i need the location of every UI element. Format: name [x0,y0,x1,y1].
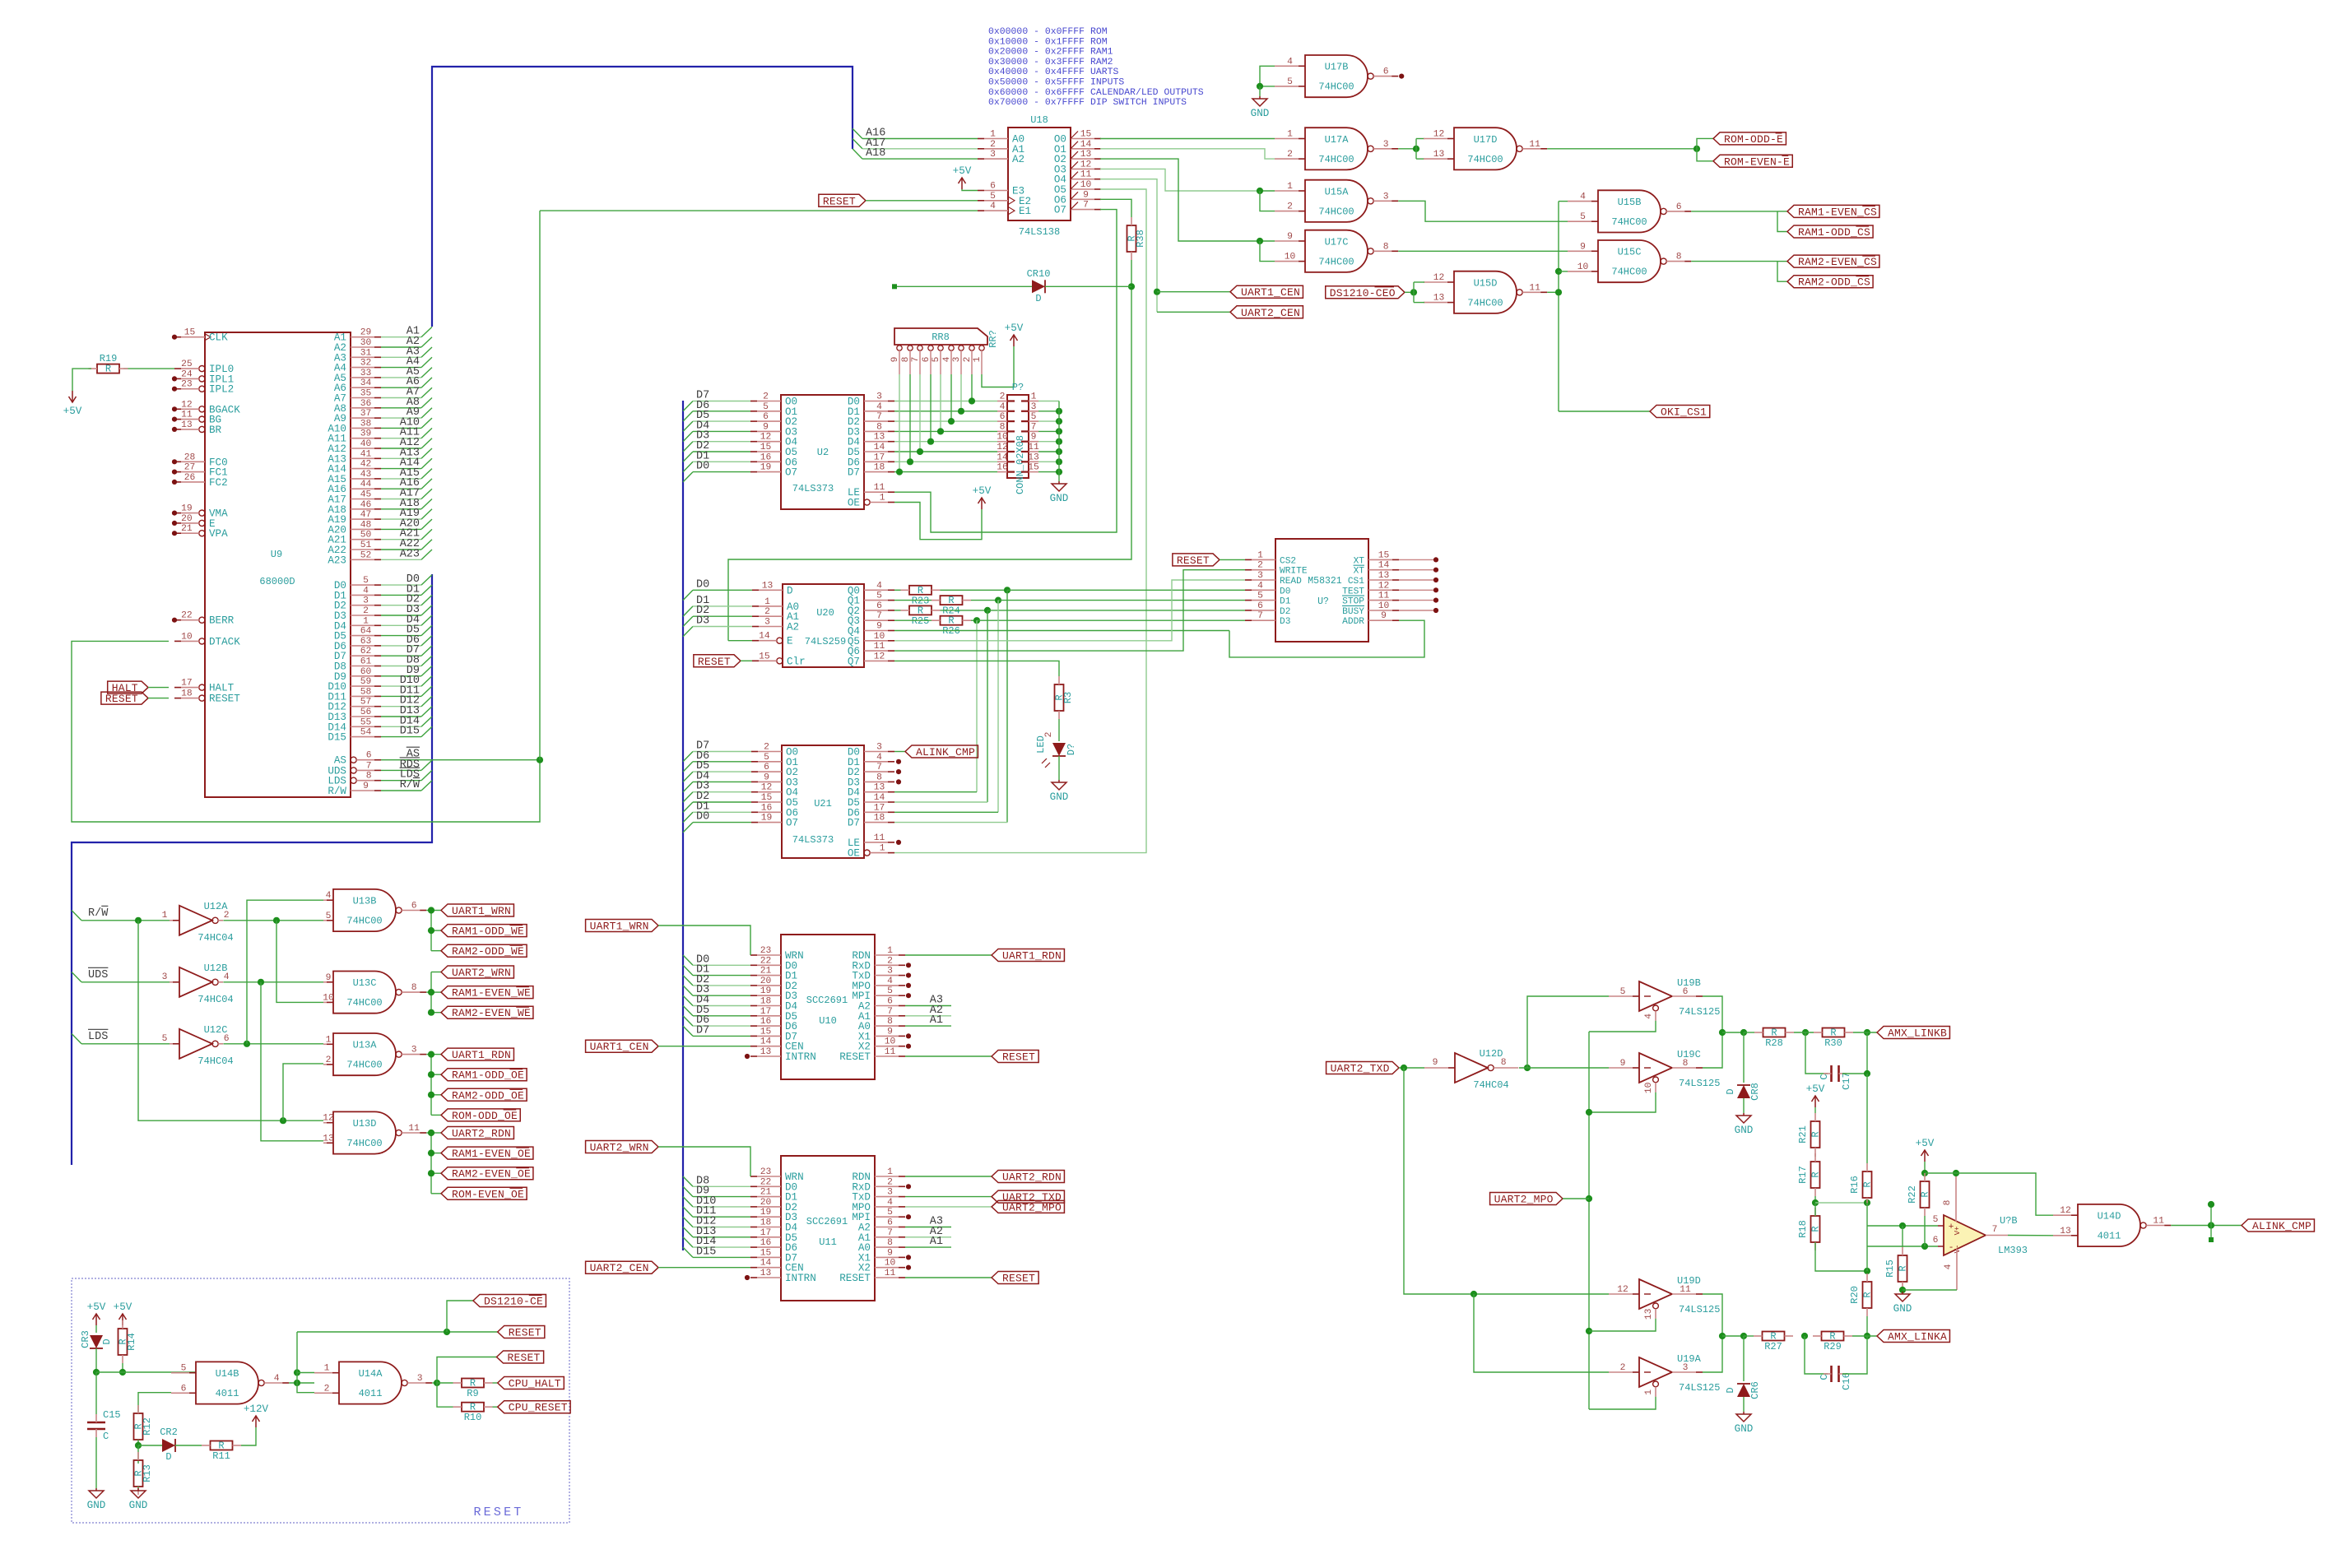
wire U11 address A1 [905,1246,951,1248]
net label D3 [696,430,709,443]
svg-text:SCC2691: SCC2691 [806,1216,848,1227]
U9 pin 31 A3 [334,348,381,364]
wire D4 to U21.O3 [683,782,751,791]
net label D5 [696,410,709,422]
wire O-column to U15B.4 [1559,201,1568,202]
ground at R15 [1893,1292,1912,1315]
svg-text:D: D [1725,1387,1736,1393]
svg-text:OKI_CS1: OKI_CS1 [1661,406,1707,419]
svg-text:R/W: R/W [88,907,109,920]
svg-text:14: 14 [1080,140,1092,150]
svg-text:74LS373: 74LS373 [792,834,834,846]
U21 pin 3 D0 [848,743,894,758]
svg-text:R27: R27 [1764,1341,1782,1352]
svg-text:U12D: U12D [1480,1048,1503,1060]
svg-text:16: 16 [997,463,1008,473]
+5V power at U18.E3 [953,165,972,189]
bus entry UDS [72,972,81,982]
svg-text:1: 1 [880,494,885,503]
wire A14 to bus [381,458,432,468]
svg-text:D0: D0 [696,811,709,823]
wire AS vertical to E1 row [539,211,541,760]
U9 pin 24 IPL1 [174,369,234,385]
U9 pin 26 FC2 [174,473,228,489]
wire U11 RDN to label [905,1176,992,1177]
U18 pin 11 O4 [1054,170,1101,186]
net label A6 [407,376,420,388]
wire U11 address A2 [905,1236,951,1238]
U14D output pin 11 [2146,1217,2171,1227]
U21 pin 12 O4 [751,783,798,799]
P? pin 8 [997,422,1015,432]
svg-text:5: 5 [932,356,941,362]
resistor R9 [453,1378,493,1400]
svg-text:14: 14 [874,443,885,452]
svg-text:14: 14 [760,1259,772,1269]
svg-text:RESET: RESET [105,693,138,705]
wire D5 to U21.O2 [683,772,751,782]
U9 pin 38 A10 [328,419,381,434]
wire D6 to U21.O1 [683,762,751,772]
net label D8 [407,655,420,667]
net label D3 at U10 [696,984,709,996]
U21 pin 16 O6 [751,803,798,819]
wire D1 to U21.O6 [683,812,751,822]
svg-text:36: 36 [360,399,372,409]
svg-text:12: 12 [760,433,772,443]
latch U21 74LS373 [782,745,864,858]
svg-text:XT: XT [1354,567,1365,577]
U10 pin 4 MPO [852,977,905,992]
svg-text:U17D: U17D [1474,134,1498,146]
svg-text:13: 13 [1433,150,1445,160]
svg-text:D7: D7 [696,1024,709,1037]
U9 pin 25 IPL0 [174,360,234,375]
global label RESET at U11 [992,1272,1038,1285]
svg-text:20: 20 [760,977,772,986]
svg-text:GND: GND [1050,493,1069,504]
junction U15D strap [1410,289,1417,295]
svg-text:R15: R15 [1884,1260,1896,1278]
wire CR10 anode stub [894,285,1032,287]
wire RESET to CS2 [1220,559,1245,560]
wire stub above ALINK junction [2210,1204,2212,1226]
svg-text:17: 17 [181,679,193,689]
svg-text:74LS125: 74LS125 [1679,1006,1720,1018]
U11 pin 22 D0 [750,1177,797,1193]
wire U2.D7 to P connector [894,471,997,473]
net label D4 [407,614,420,626]
U13D output pin 11 [402,1124,426,1134]
wire U21.D4 feedback [894,791,977,793]
global label UART2_TXD [1326,1062,1399,1075]
U7 pin 11 STOP [1342,591,1399,607]
wire U2.D3 to P connector [894,430,997,432]
svg-text:74HC00: 74HC00 [346,997,382,1009]
U9 pin 6 AS [334,751,381,767]
wire U2.D6 to P connector [894,461,997,462]
svg-text:A1: A1 [930,1236,943,1248]
global label ROM-EVEN_OE [441,1187,527,1200]
U9 pin 35 A7 [334,389,381,405]
wire D11 to bus [381,686,432,696]
svg-text:5: 5 [990,192,996,202]
wire A17 to bus [381,489,432,499]
global label ALINK_CMP [2242,1219,2314,1232]
svg-text:3: 3 [411,1046,417,1055]
wire LDS to inverter [81,1043,170,1045]
net label A1 [407,326,420,338]
svg-text:ROM-ODD-E: ROM-ODD-E [1724,133,1783,146]
svg-text:74HC00: 74HC00 [346,1138,382,1149]
svg-text:3: 3 [417,1374,423,1384]
svg-text:11: 11 [885,1047,896,1057]
wire U2.D1 to P connector [894,411,997,412]
svg-text:2: 2 [887,1177,893,1187]
U21 pin 7 D2 [848,763,894,778]
U18 pin 9 O6 [1054,190,1101,206]
U11 pin 14 CEN [750,1259,804,1274]
U10 pin 23 WRN [750,946,804,962]
bus entries A16 A17 A18 into U18 [853,128,862,159]
net label D9 at U11 [696,1185,709,1198]
wire R22 to pin6 row [1924,1216,1926,1246]
ground at C15 [87,1488,106,1511]
op-amp V+ pin 8 [1943,1173,1956,1222]
svg-text:21: 21 [760,967,772,977]
wire D5 to U2.O2 [683,421,750,431]
svg-text:25: 25 [181,360,193,369]
net label D14 [400,715,420,727]
svg-text:R: R [1810,1131,1822,1137]
svg-text:8: 8 [887,1238,893,1248]
svg-text:4: 4 [876,581,882,591]
svg-text:D: D [1035,293,1041,304]
net label D7 [696,390,709,402]
svg-text:U17B: U17B [1325,62,1349,73]
U9 pin 20 E [174,514,216,530]
U7 pin 12 TEST [1342,581,1399,596]
U20 pin 7 Q3 [848,611,894,627]
wire RR8 pin 3 pullup to D line [960,374,962,411]
svg-text:12: 12 [1617,1285,1628,1295]
global label UART2_RDN [992,1171,1064,1184]
bus D0-D15 / control vertical at CPU right [72,574,432,1165]
svg-text:35: 35 [360,389,372,399]
wire P? pin 3 to ground rail [1038,411,1059,412]
junction U15C.10 on vertical [1555,268,1562,275]
net label D3 at U20 [696,615,709,628]
wire to R27 [1744,1335,1754,1337]
svg-text:+5V: +5V [973,485,992,497]
svg-text:17: 17 [874,803,885,813]
svg-text:C15: C15 [103,1409,121,1421]
U7 pin 7 D3 [1245,611,1290,627]
svg-text:LED: LED [1035,735,1047,754]
svg-text:18: 18 [181,689,193,699]
resistor R28 [1754,1028,1794,1050]
U12A output pin [218,911,229,921]
wire D15 to U11 [683,1247,750,1257]
svg-text:13: 13 [874,433,885,443]
wire R24 line to U7 [998,600,1245,601]
U20 pin 14 E [752,632,793,647]
svg-text:5: 5 [1031,412,1037,422]
U18 pin 2 A1 [978,140,1024,155]
svg-text:XT: XT [1354,556,1365,566]
svg-text:4: 4 [1644,1014,1654,1019]
global label HALT [108,681,148,694]
global label ALINK_CMP at U21 [905,745,978,758]
wire D2 to U10 [683,976,750,986]
CPU U9 68000D [205,332,351,797]
global label UART2_TXD [992,1190,1064,1204]
wire UART2_CEN to CEN [658,1267,750,1269]
net label A18 [400,498,420,510]
U10 pin 9 X1 [858,1027,905,1042]
wire IPL0 to R19 [123,368,174,369]
svg-text:4011: 4011 [216,1388,239,1399]
no-connect U10 right pin [906,983,911,988]
svg-text:E1: E1 [1019,206,1031,217]
svg-text:8: 8 [876,772,882,782]
svg-text:GND: GND [1735,1125,1754,1136]
svg-text:4: 4 [1287,57,1293,67]
wire D10 to U11 [683,1197,750,1207]
U9 pin 61 D8 [334,657,381,673]
net label D7 at U10 [696,1024,709,1037]
wire U21.D5 feedback [894,801,987,803]
svg-text:15: 15 [760,1248,772,1258]
inverter U12A 74HC04 [179,901,234,944]
svg-text:A1: A1 [930,1014,943,1027]
svg-text:RAM1-ODD_OE: RAM1-ODD_OE [452,1069,524,1082]
wire to R28 [1744,1032,1754,1033]
U11 pin 6 A2 [858,1218,905,1234]
svg-text:2: 2 [1000,392,1006,402]
U20 pin 5 Q1 [848,591,894,607]
global label RESET at U10 [992,1051,1038,1064]
U20 pin 2 A1 [752,607,799,623]
wire R23 line to U7 [1007,589,1245,591]
wire A16 to bus [381,479,432,489]
U10 pin 15 D7 [750,1027,797,1042]
svg-text:4011: 4011 [2098,1231,2121,1242]
U7 pin 4 D0 [1245,581,1291,596]
U2 pin 17 D6 [848,452,894,468]
global label RESET at U18.E2 [819,194,866,207]
wire +5V to E3 [962,189,978,191]
U9 pin 21 VPA [174,524,228,540]
net label RDS [400,758,420,771]
svg-text:U13B: U13B [353,896,377,907]
svg-text:READ: READ [1280,577,1302,587]
wire A22 to bus [381,540,432,550]
junction RAM2-EVEN_OE [428,1170,434,1176]
wire to RAM1-EVEN_WE [431,991,441,993]
ground at CR6 [1735,1412,1754,1435]
svg-text:R30: R30 [1824,1037,1842,1049]
net label D6 [407,634,420,647]
svg-text:R21: R21 [1797,1125,1809,1144]
U14B output pin 4 [264,1374,289,1384]
svg-text:CPU_HALT: CPU_HALT [509,1378,561,1390]
wire R14 to junction [122,1363,123,1372]
svg-text:U19A: U19A [1677,1353,1702,1365]
svg-text:5: 5 [1933,1215,1939,1225]
svg-text:63: 63 [360,637,372,647]
net label R/W [88,906,109,919]
svg-text:4: 4 [1257,581,1263,591]
wire U2 OE to +5V [894,503,982,540]
resistor R12 [133,1405,154,1448]
svg-text:2: 2 [763,392,769,402]
U17A output pin 3 [1373,140,1398,150]
wire D0 to U21.O7 [683,823,751,833]
svg-text:2: 2 [1620,1363,1626,1373]
wire D7 to U2.O0 [683,401,750,411]
+5V power at U2 OE [973,485,992,509]
U9 pin 18 RESET [174,689,240,705]
svg-text:21: 21 [181,524,193,534]
svg-text:14: 14 [760,1037,772,1047]
svg-text:U15B: U15B [1618,197,1642,208]
svg-text:11: 11 [2153,1217,2164,1227]
net label D0 at U21 [696,811,709,823]
P? pin 16 [997,463,1015,473]
svg-text:R: R [1898,1265,1909,1271]
svg-text:3: 3 [764,618,770,628]
svg-text:29: 29 [360,328,372,338]
U10 pin 18 D4 [750,997,797,1013]
svg-text:RESET: RESET [509,1327,541,1339]
svg-text:7: 7 [1083,201,1089,211]
RR8 pin 5 [932,346,943,374]
U10 pin 6 A2 [858,997,905,1013]
wire P? pin 5 to ground rail [1038,420,1059,422]
svg-text:61: 61 [360,657,372,667]
svg-text:U?B: U?B [2000,1215,2018,1227]
capacitor C16 [1805,1336,1867,1390]
U11 pin 2 RxD [852,1177,905,1193]
junction RR8 pin 7 [917,448,923,455]
svg-text:U14D: U14D [2098,1211,2121,1222]
bus D0-D15 data bus at UART column [682,401,684,1250]
svg-text:9: 9 [1433,1058,1438,1068]
svg-text:3: 3 [363,596,369,606]
net label D0 at U20 [696,578,709,591]
svg-text:R: R [1920,1191,1931,1197]
svg-text:UDS: UDS [88,969,108,981]
junction node A right [1864,1199,1870,1206]
no-connect U21 pin 8 [896,779,901,784]
net label UDS [88,967,108,981]
global label RESET at U20.Clr [694,655,741,668]
wire U14D out to ALINK_CMP [2171,1225,2242,1227]
svg-text:U9: U9 [271,549,282,560]
wire pin5 row [1867,1225,1938,1227]
global label UART2_CEN [1230,306,1303,319]
svg-text:22: 22 [181,611,193,621]
svg-text:57: 57 [360,698,372,707]
svg-text:10: 10 [1644,1082,1654,1093]
svg-text:R20: R20 [1849,1286,1861,1304]
wire D3 to U10 [683,986,750,995]
wire U10 RDN to label [905,954,992,956]
svg-text:8: 8 [887,1017,893,1027]
svg-text:R: R [1810,1171,1822,1177]
svg-text:OE: OE [848,498,860,509]
svg-text:33: 33 [360,369,372,378]
svg-text:24: 24 [181,369,193,379]
wire CR10 to junction [1045,285,1131,287]
svg-text:U10: U10 [819,1015,837,1027]
U12B input pin [162,972,179,982]
svg-text:U19C: U19C [1677,1049,1701,1060]
U21 pin 8 D3 [848,772,894,788]
svg-text:A2: A2 [787,622,799,633]
junction RR8 pin 6 [927,438,934,445]
wire R11 to +12V [241,1427,256,1445]
junction R14 [119,1369,126,1375]
U11 pin 19 D3 [750,1208,797,1223]
svg-text:19: 19 [760,463,772,473]
U10 pin 3 TxD [852,967,905,982]
svg-text:12: 12 [1080,160,1092,169]
wire D6 to U2.O1 [683,411,750,421]
svg-text:U14B: U14B [216,1368,239,1380]
svg-text:74HC00: 74HC00 [346,1060,382,1071]
U11 pin 13 INTRN [750,1269,816,1284]
svg-text:50: 50 [360,531,372,540]
svg-text:R29: R29 [1824,1341,1842,1352]
U2 pin 8 D3 [848,422,894,438]
svg-text:UART1_CEN: UART1_CEN [1241,286,1300,299]
net label A17 [400,488,420,500]
svg-text:60: 60 [360,667,372,677]
wire O0 to U17A.1 [1100,138,1275,140]
svg-text:11: 11 [1028,443,1039,452]
wire O6 down through R38 [1100,199,1131,217]
wire CR3 to junction [95,1348,97,1372]
svg-text:GND: GND [1251,108,1270,119]
buffer U19C 74LS125 [1609,1049,1720,1093]
net label D11 [400,684,420,697]
net label AS [407,747,420,760]
svg-text:UART2_WRN: UART2_WRN [590,1142,649,1154]
svg-text:+5V: +5V [114,1301,132,1313]
svg-text:1: 1 [1287,182,1293,192]
svg-text:6: 6 [876,601,882,611]
svg-text:3: 3 [887,967,893,977]
U9 pin 58 D11 [328,687,381,703]
wire CR8 to ground [1743,1098,1745,1113]
svg-text:74HC04: 74HC04 [197,932,233,944]
wire D3 to U21.O4 [683,792,751,802]
svg-text:74HC00: 74HC00 [1467,154,1503,165]
wire D7 to bus [381,646,432,656]
net label A9 [407,406,420,419]
U9 pin 13 BR [174,420,222,436]
svg-text:1: 1 [162,911,168,921]
U21 pin 6 O2 [751,763,798,778]
svg-text:4: 4 [942,356,952,362]
svg-text:43: 43 [360,470,372,480]
wire A5 to bus [381,368,432,378]
wire node to CR8 [1722,1032,1744,1033]
U10 pin 13 INTRN [750,1047,816,1063]
svg-text:30: 30 [360,338,372,348]
